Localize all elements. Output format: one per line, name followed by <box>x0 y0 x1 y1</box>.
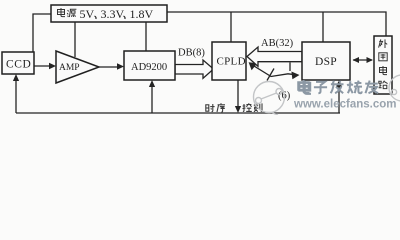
svg-text:www.elecfans.com: www.elecfans.com <box>293 99 396 111</box>
svg-text:CPLD: CPLD <box>217 56 246 68</box>
svg-text:1.8V: 1.8V <box>130 7 154 21</box>
svg-text:DB(8): DB(8) <box>178 48 205 59</box>
svg-text:DSP: DSP <box>315 56 337 68</box>
svg-text:CCD: CCD <box>6 59 31 71</box>
svg-text:3.3V: 3.3V <box>101 7 125 21</box>
svg-text:5V: 5V <box>80 7 95 21</box>
svg-text:AB(32): AB(32) <box>261 38 294 49</box>
svg-text:AD9200: AD9200 <box>131 62 167 73</box>
svg-text:AMP: AMP <box>59 63 80 73</box>
